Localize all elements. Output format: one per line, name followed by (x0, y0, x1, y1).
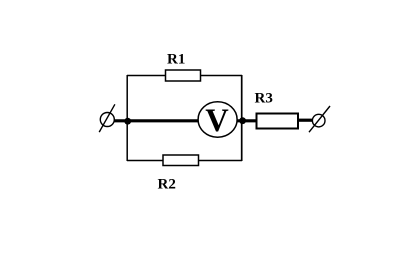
svg-text:V: V (205, 103, 229, 139)
svg-text:R1: R1 (167, 52, 185, 68)
svg-text:R2: R2 (158, 177, 176, 193)
svg-text:R3: R3 (255, 91, 273, 107)
